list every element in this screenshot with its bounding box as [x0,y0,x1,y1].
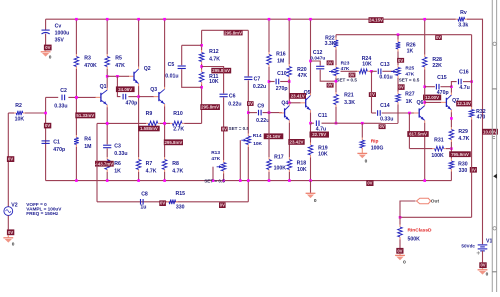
svg-text:3.3K: 3.3K [344,100,355,106]
svg-text:47K: 47K [211,156,220,162]
svg-text:0V: 0V [45,123,50,128]
svg-text:470p: 470p [437,90,449,96]
svg-text:C8: C8 [141,191,148,197]
svg-text:500K: 500K [408,237,421,243]
svg-text:C14: C14 [380,103,390,109]
svg-text:0.01u: 0.01u [165,73,178,79]
svg-text:470K: 470K [84,63,97,69]
svg-text:270p: 270p [276,86,288,92]
svg-text:1K: 1K [407,49,414,55]
svg-text:R4: R4 [84,136,91,142]
svg-text:0: 0 [403,260,406,266]
svg-text:SET = 0.5: SET = 0.5 [399,77,420,82]
svg-text:0.22u: 0.22u [253,84,266,90]
svg-text:47K: 47K [115,63,125,69]
svg-text:Q3: Q3 [150,87,157,93]
svg-text:0.22u: 0.22u [228,101,241,107]
svg-text:51.33mV: 51.33mV [76,113,94,118]
svg-text:0.33u: 0.33u [380,116,393,122]
svg-text:Q1: Q1 [100,84,107,90]
svg-text:R8: R8 [172,161,179,167]
svg-text:C5: C5 [168,62,175,68]
svg-text:0V: 0V [380,124,385,129]
svg-text:1K: 1K [114,169,121,175]
svg-text:35V: 35V [55,37,65,43]
svg-text:R16: R16 [276,51,286,57]
svg-text:10K: 10K [209,79,219,85]
svg-text:4.7K: 4.7K [146,169,157,175]
svg-text:0V: 0V [398,58,403,63]
svg-text:Rv: Rv [460,10,467,16]
svg-text:Out: Out [431,199,440,205]
svg-text:330: 330 [459,168,468,174]
svg-text:295.8mV: 295.8mV [164,140,182,145]
svg-text:12.14V: 12.14V [457,101,471,106]
svg-text:0V: 0V [349,73,354,78]
svg-text:C10: C10 [277,71,287,77]
svg-text:0V: 0V [8,230,13,235]
svg-text:330: 330 [176,204,185,210]
svg-text:Q2: Q2 [144,66,151,72]
svg-text:0V: 0V [45,45,50,50]
svg-text:24.15V: 24.15V [369,18,383,23]
svg-text:0: 0 [365,159,368,165]
svg-text:295.8mV: 295.8mV [212,68,230,73]
svg-text:R27: R27 [405,92,415,98]
svg-text:23.42V: 23.42V [290,140,304,145]
svg-text:C6: C6 [229,93,236,99]
svg-text:Cv: Cv [55,23,62,29]
svg-text:SET = 0.5: SET = 0.5 [229,126,250,131]
svg-text:1000u: 1000u [55,30,70,36]
svg-text:R23: R23 [341,60,350,66]
svg-text:FREQ = 150Hz: FREQ = 150Hz [26,211,59,216]
svg-text:R10: R10 [173,111,183,117]
svg-text:0V: 0V [8,157,13,162]
svg-text:R7: R7 [146,161,153,167]
svg-text:0V: 0V [370,92,375,97]
svg-text:0V: 0V [436,35,441,40]
svg-text:470p: 470p [53,147,65,153]
svg-text:R31: R31 [434,138,444,144]
svg-text:R30: R30 [458,162,468,168]
svg-text:23.41V: 23.41V [291,94,305,99]
svg-text:0V: 0V [328,83,333,88]
svg-text:0.01u: 0.01u [379,75,392,81]
svg-text:0V: 0V [220,203,225,208]
svg-text:1M: 1M [84,144,91,150]
svg-text:4.7K: 4.7K [458,136,469,142]
svg-text:100K: 100K [431,153,444,159]
svg-text:C2: C2 [60,88,67,94]
svg-text:R14: R14 [253,133,262,139]
svg-text:R6: R6 [114,161,121,167]
svg-text:RinClassD: RinClassD [408,227,433,233]
svg-text:0V: 0V [367,181,372,186]
svg-text:C9: C9 [257,104,264,110]
svg-text:R18: R18 [297,161,307,167]
svg-text:V2: V2 [11,202,17,208]
svg-text:R9: R9 [146,111,153,117]
svg-text:C11: C11 [318,113,327,119]
svg-text:R25: R25 [405,66,414,72]
svg-text:0V: 0V [397,248,402,253]
svg-text:295.8mV: 295.8mV [224,30,242,35]
svg-text:0V: 0V [248,101,253,106]
svg-text:4.7K: 4.7K [209,57,220,63]
svg-text:0: 0 [12,242,15,248]
svg-text:10K: 10K [318,152,328,158]
svg-text:R15: R15 [176,191,186,197]
svg-text:R17: R17 [274,154,284,160]
svg-text:470: 470 [477,115,486,121]
svg-text:C16: C16 [459,69,469,75]
svg-text:1M: 1M [277,58,284,64]
svg-text:10K: 10K [253,141,262,147]
svg-text:10K: 10K [15,117,25,123]
svg-text:R3: R3 [84,55,91,61]
svg-text:295.8mV: 295.8mV [201,105,219,110]
svg-text:C1: C1 [53,139,60,145]
svg-text:100K: 100K [274,165,287,171]
svg-text:100G: 100G [371,146,384,152]
svg-text:10.00V: 10.00V [483,129,497,134]
svg-text:3.3K: 3.3K [325,41,336,47]
svg-text:10K: 10K [297,167,307,173]
svg-text:1.588mV: 1.588mV [140,126,158,131]
svg-text:R2: R2 [15,103,22,109]
svg-text:0: 0 [314,198,317,204]
svg-text:0V: 0V [399,85,404,90]
svg-text:1u: 1u [140,205,146,211]
svg-text:C15: C15 [437,75,447,81]
svg-text:R29: R29 [458,129,468,135]
svg-text:443.7mV: 443.7mV [95,161,113,166]
svg-text:0.33u: 0.33u [54,104,67,110]
svg-text:R13: R13 [211,150,220,156]
svg-text:0V: 0V [160,201,165,206]
svg-text:4.7u: 4.7u [459,85,469,91]
svg-text:0V: 0V [222,127,227,132]
svg-text:795.9mV: 795.9mV [451,152,469,157]
svg-text:Q6: Q6 [417,100,424,106]
svg-text:0.22u: 0.22u [256,118,269,124]
svg-text:C3: C3 [114,143,121,149]
svg-text:Q4: Q4 [281,100,288,106]
svg-text:4.7K: 4.7K [172,169,183,175]
svg-text:SET = 0.5: SET = 0.5 [336,77,357,82]
svg-text:47K: 47K [298,73,308,79]
svg-text:0: 0 [49,54,52,60]
svg-text:0: 0 [486,272,489,278]
svg-text:V1: V1 [486,239,492,245]
svg-text:SET = 0.5: SET = 0.5 [204,178,225,183]
svg-text:1K: 1K [406,99,413,105]
svg-text:0.33u: 0.33u [114,151,127,157]
svg-text:22.75V: 22.75V [312,132,326,137]
svg-text:617.5mV: 617.5mV [409,132,427,137]
svg-text:22K: 22K [432,63,442,69]
svg-text:R19: R19 [318,145,328,151]
svg-text:0V: 0V [480,263,485,268]
svg-text:R5: R5 [115,55,122,61]
svg-text:R21: R21 [344,93,354,99]
svg-text:3.3k: 3.3k [458,23,468,29]
svg-text:50Vdc: 50Vdc [461,243,475,248]
svg-text:0.047u: 0.047u [310,56,325,62]
svg-text:0V: 0V [328,60,333,65]
svg-text:C7: C7 [254,77,261,83]
svg-text:10K: 10K [362,62,372,68]
svg-text:24.06V: 24.06V [118,87,132,92]
svg-text:470p: 470p [126,100,138,106]
svg-text:2.7K: 2.7K [173,126,184,132]
svg-text:Rip: Rip [371,139,379,145]
svg-text:R12: R12 [209,49,219,55]
svg-text:C13: C13 [380,62,390,68]
svg-text:C12: C12 [313,50,323,56]
